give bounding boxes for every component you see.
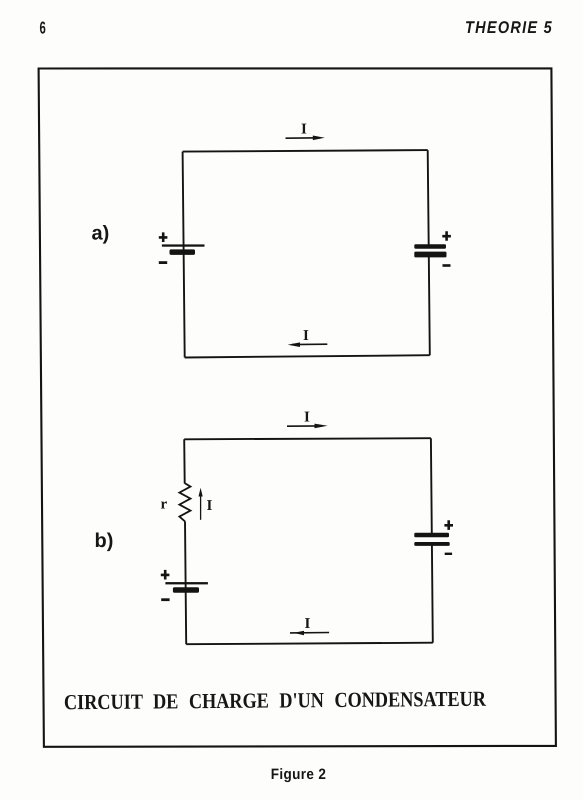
svg-text:b): b) [95, 530, 114, 552]
wire a top [183, 150, 428, 152]
svg-text:THEORIE 5: THEORIE 5 [465, 18, 553, 37]
svg-text:I: I [207, 498, 213, 514]
current arrow (a top, rightward) [286, 137, 321, 139]
capacitor C1 top plate [414, 244, 446, 248]
svg-text:I: I [301, 121, 307, 137]
wire b right lower [431, 544, 434, 643]
capacitor C1 minus sign [443, 264, 451, 267]
battery B1 long plate [162, 244, 205, 246]
battery B2 short thick plate [173, 587, 199, 593]
battery B1 short thick plate [170, 249, 196, 255]
wire b right upper [430, 438, 433, 534]
current arrow (a bottom, leftward) [292, 343, 327, 345]
wire b left lower (resistor to bottom) [185, 521, 186, 644]
current arrow beside resistor (upward) [200, 492, 202, 520]
border frame [39, 68, 556, 746]
capacitor C1 bottom plate [414, 252, 446, 258]
wire b top [184, 438, 431, 439]
wire b bottom [186, 643, 433, 645]
capacitor C2 minus sign [445, 553, 452, 555]
svg-text:I: I [304, 409, 310, 425]
wire a left [183, 152, 185, 358]
svg-text:Figure 2: Figure 2 [271, 766, 327, 783]
capacitor C1 plus sign [442, 231, 451, 241]
battery B2 long plate [165, 582, 208, 584]
wire a right lower [429, 256, 430, 355]
wire a right upper [428, 150, 429, 246]
resistor r zigzag [179, 483, 190, 521]
battery B2 plus sign [161, 570, 170, 580]
capacitor C2 plus sign [444, 520, 453, 530]
battery B1 minus sign [159, 261, 167, 264]
svg-text:r: r [161, 497, 168, 513]
battery B1 plus sign [159, 232, 168, 242]
svg-text:I: I [303, 328, 309, 344]
current arrow (b top, rightward) [287, 425, 322, 427]
svg-text:I: I [305, 616, 311, 632]
wire b left upper (above resistor) [183, 439, 186, 483]
capacitor C2 top plate [414, 533, 449, 538]
current arrow (b bottom, leftward) [290, 632, 329, 634]
svg-text:CIRCUIT DE CHARGE D'UN CONDENS: CIRCUIT DE CHARGE D'UN CONDENSATEUR [64, 687, 487, 715]
svg-text:6: 6 [40, 18, 46, 38]
battery B2 minus sign [161, 598, 169, 601]
svg-text:a): a) [92, 223, 110, 245]
wire a bottom [185, 355, 430, 357]
capacitor C2 bottom plate [414, 542, 449, 546]
